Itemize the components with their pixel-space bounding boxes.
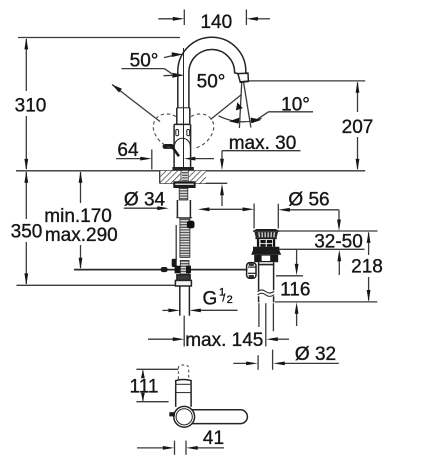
svg-text:41: 41 bbox=[203, 428, 224, 449]
svg-text:218: 218 bbox=[351, 257, 383, 278]
svg-text:Ø 34: Ø 34 bbox=[124, 190, 166, 211]
svg-text:Ø 32: Ø 32 bbox=[295, 344, 336, 365]
svg-text:Ø 56: Ø 56 bbox=[288, 189, 329, 210]
svg-text:50°: 50° bbox=[197, 72, 226, 93]
svg-text:min.170: min.170 bbox=[44, 206, 112, 227]
svg-text:116: 116 bbox=[280, 280, 310, 301]
svg-text:111: 111 bbox=[130, 377, 159, 398]
svg-text:350: 350 bbox=[11, 222, 43, 243]
svg-text:207: 207 bbox=[342, 117, 374, 138]
svg-text:max. 30: max. 30 bbox=[229, 133, 297, 154]
svg-text:2: 2 bbox=[227, 294, 233, 306]
svg-text:64: 64 bbox=[117, 140, 139, 161]
svg-text:140: 140 bbox=[200, 12, 232, 33]
svg-text:310: 310 bbox=[15, 96, 47, 117]
svg-text:G: G bbox=[203, 289, 218, 310]
svg-text:max. 145: max. 145 bbox=[185, 330, 263, 351]
svg-text:max.290: max.290 bbox=[45, 225, 118, 246]
svg-text:32-50: 32-50 bbox=[314, 232, 363, 253]
